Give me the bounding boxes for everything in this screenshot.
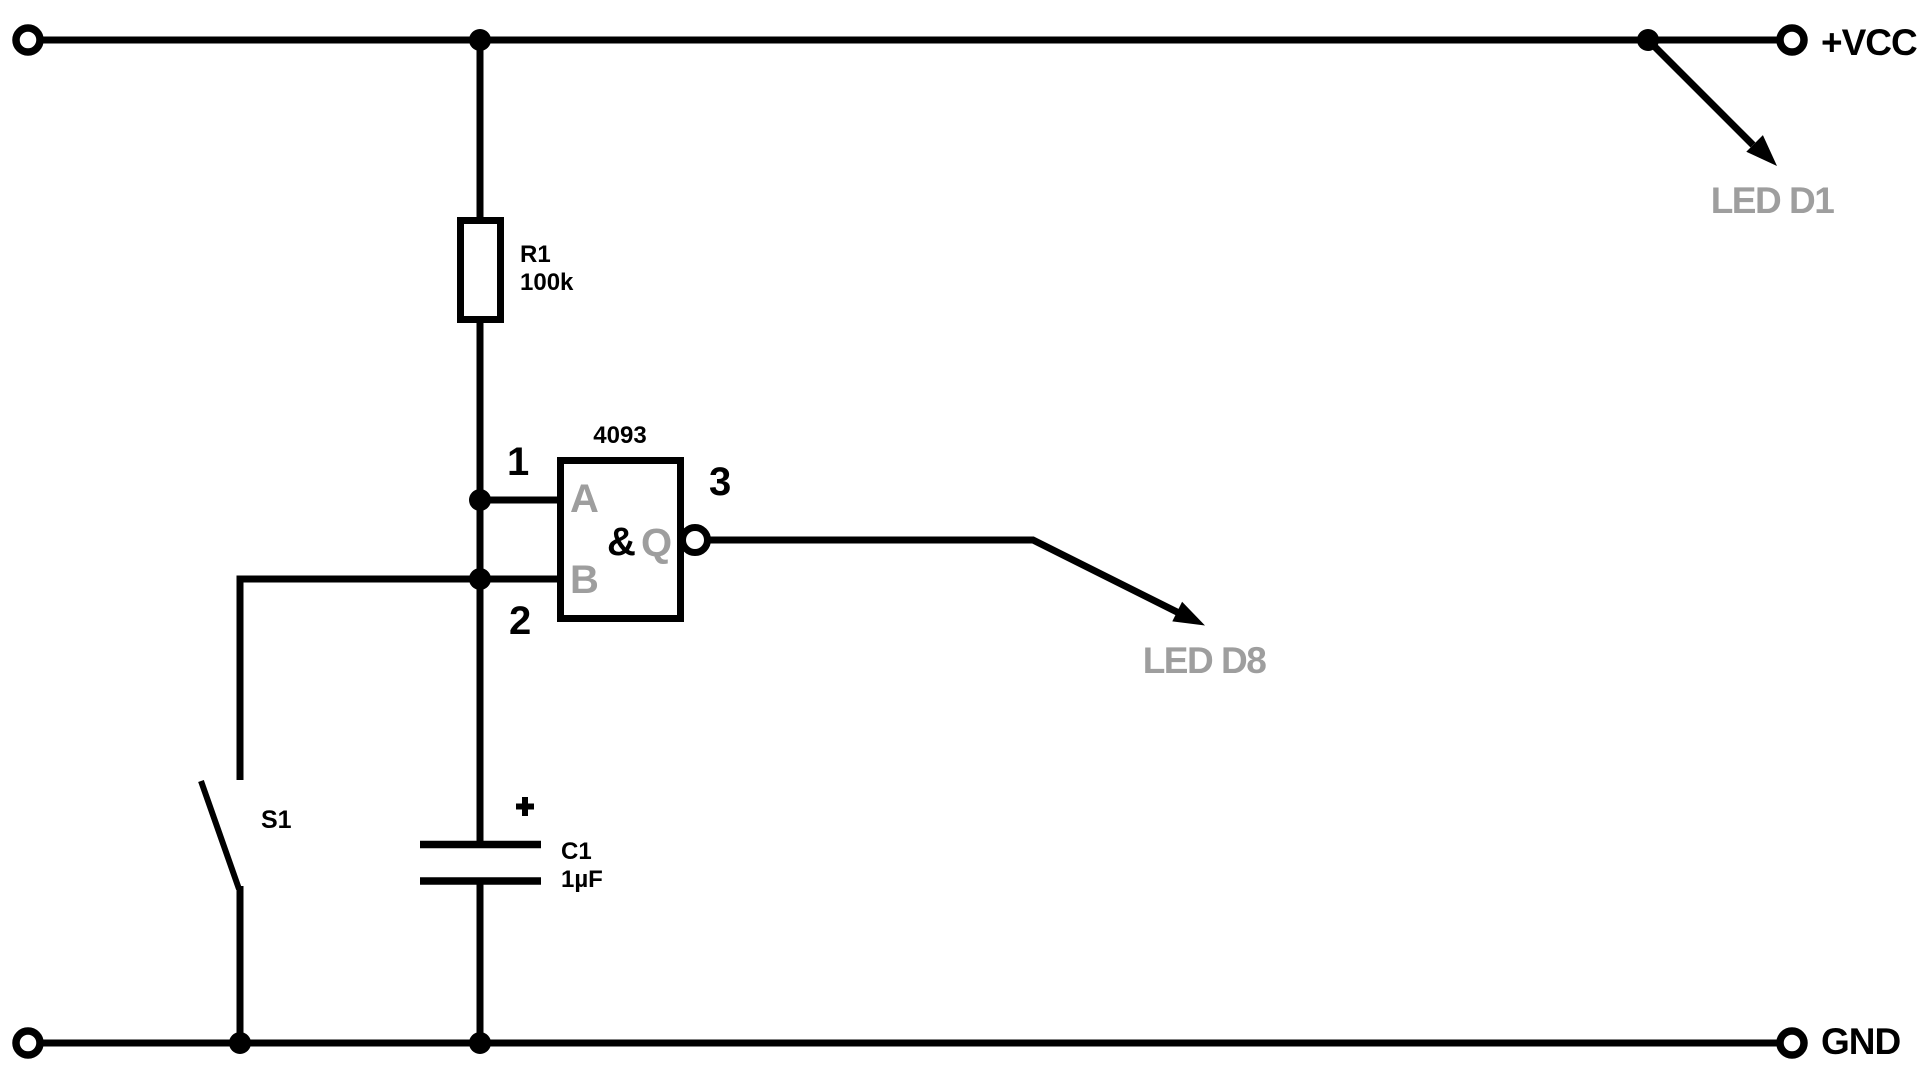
wire node B to C1 [477, 579, 484, 841]
wire arrow to LED D1 [1648, 40, 1753, 145]
switch S1 blade [201, 781, 239, 889]
capacitor C1 plus sign [516, 804, 534, 810]
svg-text:A: A [570, 477, 599, 521]
svg-text:&: & [607, 520, 636, 564]
node A junction [469, 489, 491, 511]
inversion bubble on gate output [683, 528, 708, 553]
svg-text:C1: C1 [561, 838, 592, 865]
terminal +VCC right [1780, 28, 1804, 52]
svg-text:S1: S1 [261, 806, 292, 834]
svg-text:LED D1: LED D1 [1711, 180, 1835, 221]
terminal +VCC left [16, 28, 40, 52]
svg-text:Q: Q [641, 521, 672, 565]
op-amp U1 4093 NAND gate body [561, 461, 681, 619]
wire node B to switch branch [240, 576, 480, 583]
node junction switch to GND rail [229, 1032, 251, 1054]
wire top VCC rail [43, 37, 1777, 44]
svg-text:1µF: 1µF [561, 866, 603, 893]
wire node B to gate pin 2 [480, 576, 557, 583]
svg-text:GND: GND [1821, 1021, 1901, 1062]
svg-text:4093: 4093 [593, 422, 646, 449]
node junction top rail to R1 [469, 29, 491, 51]
svg-text:2: 2 [509, 599, 531, 643]
node B junction [469, 568, 491, 590]
wire switch top lead [237, 576, 244, 781]
wire node A to gate pin 1 [480, 497, 557, 504]
node junction C1 to GND rail [469, 1032, 491, 1054]
wire bottom GND rail [43, 1040, 1777, 1047]
terminal GND left [16, 1031, 40, 1055]
svg-text:1: 1 [507, 440, 529, 484]
svg-text:B: B [570, 558, 599, 602]
wire arrow to LED D8 [1172, 602, 1205, 626]
wire switch bottom lead [237, 886, 244, 1043]
resistor R1 [461, 221, 501, 320]
svg-text:LED D8: LED D8 [1143, 640, 1267, 681]
terminal GND right [1780, 1031, 1804, 1055]
svg-text:R1: R1 [520, 241, 551, 268]
wire C1 to GND rail [477, 884, 484, 1043]
svg-text:3: 3 [709, 460, 731, 504]
wire gate output pin 3 [708, 540, 1181, 614]
node junction top rail to LED D1 arrow [1637, 29, 1659, 51]
wire R1 to node A [477, 323, 484, 583]
wire VCC to R1 [477, 40, 484, 217]
svg-text:100k: 100k [520, 269, 574, 296]
svg-text:+VCC: +VCC [1821, 22, 1917, 63]
capacitor C1 bottom plate [420, 877, 541, 885]
capacitor C1 top plate [420, 841, 541, 849]
